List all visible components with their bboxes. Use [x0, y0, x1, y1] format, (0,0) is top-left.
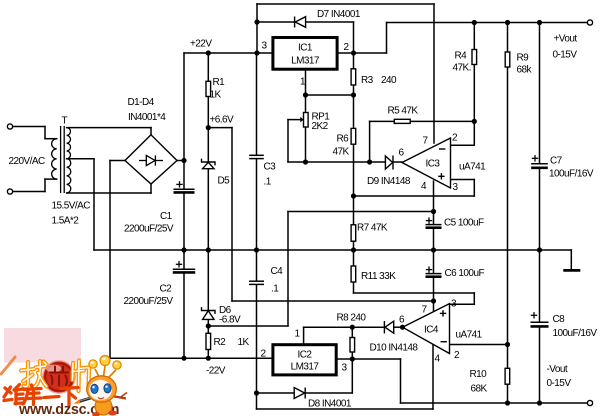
svg-text:0-15V: 0-15V: [553, 50, 578, 61]
svg-text:1K: 1K: [210, 90, 222, 101]
svg-text:100uF/16V: 100uF/16V: [553, 328, 598, 339]
svg-text:15.5V/AC: 15.5V/AC: [52, 201, 91, 212]
svg-text:IN4001*4: IN4001*4: [128, 112, 166, 123]
svg-text:R9: R9: [517, 53, 530, 64]
svg-text:220V/AC: 220V/AC: [9, 156, 46, 167]
svg-text:.1: .1: [264, 177, 272, 188]
svg-text:-22V: -22V: [206, 366, 226, 377]
svg-text:R2: R2: [214, 337, 227, 348]
svg-text:68K: 68K: [471, 384, 488, 395]
svg-text:C1: C1: [160, 211, 173, 222]
svg-text:47K.: 47K.: [453, 63, 471, 74]
svg-text:C4: C4: [271, 266, 284, 277]
svg-text:R4: R4: [455, 51, 468, 62]
svg-text:IC3: IC3: [426, 159, 441, 170]
svg-text:R7 47K: R7 47K: [357, 223, 388, 234]
svg-text:IC2: IC2: [298, 350, 313, 361]
svg-text:C5 100uF: C5 100uF: [444, 218, 484, 229]
svg-text:IC4: IC4: [424, 325, 439, 336]
svg-text:D5: D5: [218, 176, 231, 187]
svg-text:IC1: IC1: [298, 43, 313, 54]
svg-text:D10 IN4148: D10 IN4148: [370, 343, 419, 354]
svg-text:R1: R1: [213, 77, 226, 88]
svg-text:R11 33K: R11 33K: [361, 271, 396, 282]
svg-text:D9 IN4148: D9 IN4148: [367, 176, 411, 187]
svg-text:R8 240: R8 240: [337, 313, 367, 324]
svg-text:.1: .1: [271, 284, 279, 295]
svg-text:uA741: uA741: [456, 330, 483, 341]
svg-text:C6 100uF: C6 100uF: [445, 268, 485, 279]
svg-text:47K: 47K: [333, 147, 350, 158]
svg-text:D7 IN4001: D7 IN4001: [317, 9, 361, 20]
svg-text:T: T: [62, 116, 68, 127]
svg-text:-Vout: -Vout: [547, 364, 568, 375]
svg-text:1.5A*2: 1.5A*2: [52, 216, 80, 227]
svg-text:240: 240: [381, 75, 397, 86]
svg-text:0-15V: 0-15V: [547, 378, 572, 389]
svg-text:R3: R3: [361, 75, 374, 86]
svg-text:C3: C3: [264, 162, 277, 173]
svg-text:D8 IN4001: D8 IN4001: [308, 399, 352, 410]
svg-text:R6: R6: [337, 134, 350, 145]
svg-text:2200uF/25V: 2200uF/25V: [124, 224, 174, 235]
svg-text:R10: R10: [470, 369, 488, 380]
svg-text:R5 47K: R5 47K: [388, 106, 419, 117]
svg-text:+Vout: +Vout: [554, 34, 578, 45]
svg-text:100uF/16V: 100uF/16V: [549, 169, 594, 180]
svg-text:C8: C8: [553, 314, 566, 325]
svg-text:+22V: +22V: [190, 39, 212, 50]
svg-text:uA741: uA741: [459, 162, 486, 173]
svg-text:LM317: LM317: [291, 56, 320, 67]
svg-text:2K2: 2K2: [312, 121, 329, 132]
svg-text:D1-D4: D1-D4: [128, 97, 155, 108]
svg-text:-6.8V: -6.8V: [219, 315, 241, 326]
svg-text:1K: 1K: [238, 337, 250, 348]
svg-text:68k: 68k: [517, 65, 533, 76]
svg-text:C2: C2: [160, 284, 173, 295]
svg-text:2200uF/25V: 2200uF/25V: [124, 296, 174, 307]
svg-text:LM317: LM317: [291, 362, 320, 373]
svg-text:C7: C7: [550, 156, 563, 167]
svg-text:+6.6V: +6.6V: [210, 115, 235, 126]
